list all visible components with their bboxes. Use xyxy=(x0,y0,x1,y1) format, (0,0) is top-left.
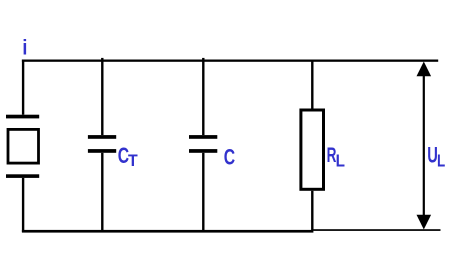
label CT xyxy=(118,145,138,170)
crystal bottom plate xyxy=(6,174,39,178)
capacitor C top plate xyxy=(189,135,217,139)
capacitor CT top plate xyxy=(88,135,116,139)
wire top bus xyxy=(22,60,438,62)
wire left branch upper xyxy=(22,60,24,115)
wire bottom bus left xyxy=(22,230,314,233)
label UL xyxy=(427,142,445,171)
wire C branch upper xyxy=(202,58,204,135)
wire RL branch upper xyxy=(311,61,313,109)
capacitor C bottom plate xyxy=(189,149,217,153)
svg-text:U: U xyxy=(427,142,438,167)
voltage arrow UL top head xyxy=(417,62,432,77)
label RL xyxy=(327,143,345,171)
wire CT branch upper xyxy=(101,58,103,135)
label C xyxy=(224,146,236,170)
resistor RL body xyxy=(301,110,324,189)
svg-text:T: T xyxy=(128,152,138,170)
wire bottom bus right xyxy=(313,229,440,231)
svg-text:L: L xyxy=(336,152,345,171)
wire C branch lower xyxy=(202,153,204,231)
crystal top plate xyxy=(6,115,39,119)
capacitor CT bottom plate xyxy=(88,149,116,153)
wire left branch lower xyxy=(22,178,24,232)
svg-text:i: i xyxy=(22,36,27,60)
crystal body xyxy=(8,129,39,163)
svg-text:L: L xyxy=(437,152,446,171)
wire CT branch lower xyxy=(101,153,103,231)
wire RL branch lower xyxy=(311,191,313,231)
voltage arrow UL shaft xyxy=(423,74,425,216)
svg-text:C: C xyxy=(224,146,236,170)
voltage arrow UL bottom head xyxy=(417,215,432,230)
node label i (current into network) xyxy=(22,36,27,60)
